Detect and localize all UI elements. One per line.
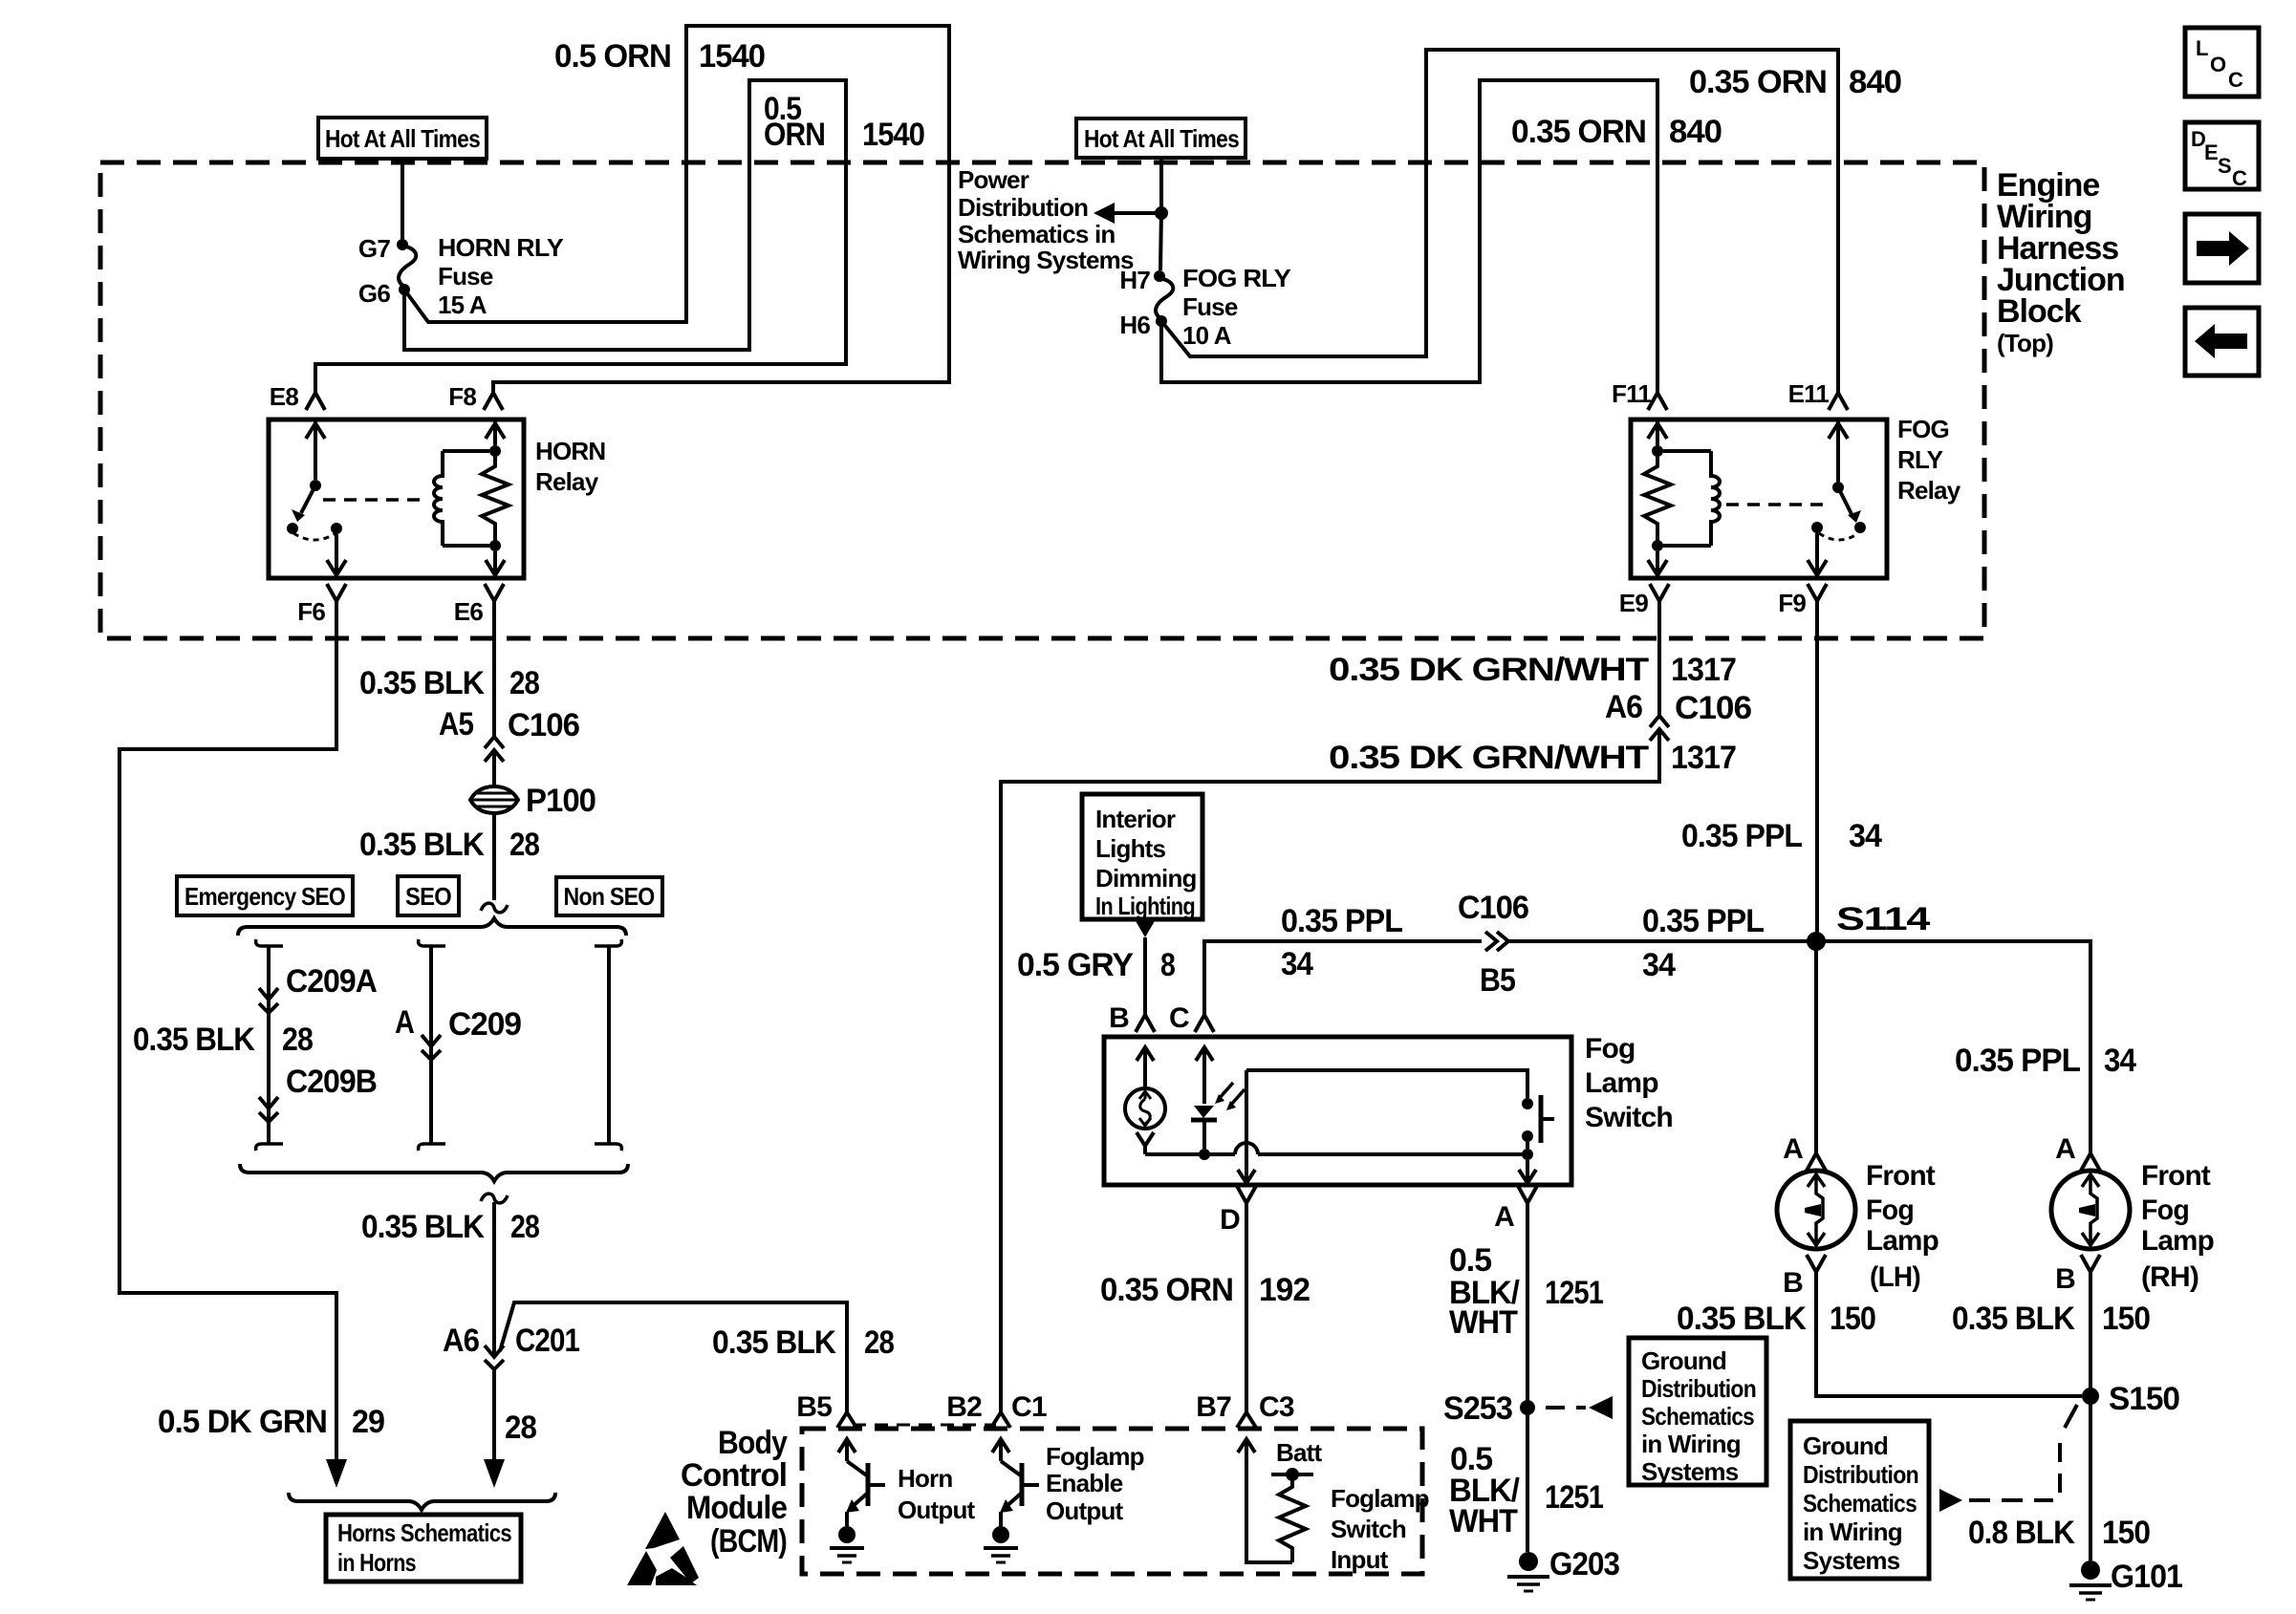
svg-text:0.5 ORN: 0.5 ORN (554, 38, 671, 75)
svg-text:B: B (1783, 1267, 1803, 1299)
svg-text:Lights: Lights (1095, 834, 1166, 863)
svg-text:Fog: Fog (1866, 1194, 1914, 1226)
svg-text:28: 28 (282, 1022, 313, 1058)
terminal B (RH fog lamp) (2055, 1255, 2100, 1295)
svg-text:1251: 1251 (1545, 1479, 1603, 1516)
wire LH lamp B to S150 (0.35 BLK 150) (1816, 1272, 2082, 1396)
boxed label Non SEO (556, 877, 662, 915)
svg-text:Input: Input (1331, 1545, 1389, 1574)
svg-text:WHT: WHT (1449, 1503, 1518, 1539)
svg-text:B: B (2055, 1263, 2075, 1295)
wire hot feed to horn fuse (401, 159, 404, 240)
relay HORN Relay box (269, 420, 524, 578)
node power distribution tap with arrow (1094, 203, 1168, 224)
svg-text:Wiring Systems: Wiring Systems (958, 246, 1134, 274)
svg-text:8: 8 (1160, 947, 1175, 983)
terminal C1 (BCM) (991, 1391, 1047, 1428)
wire connector to P100 (492, 753, 496, 786)
fuse HORN RLY 15A (399, 233, 563, 319)
svg-text:(BCM): (BCM) (710, 1523, 787, 1560)
BCM connector parting line (853, 1424, 996, 1427)
svg-text:Control: Control (681, 1457, 787, 1494)
svg-text:0.35 DK GRN/WHT: 0.35 DK GRN/WHT (1329, 652, 1649, 688)
svg-text:(Top): (Top) (1997, 329, 2053, 357)
svg-text:Lamp: Lamp (1866, 1225, 1939, 1257)
label 0.35 PPL 34 (left) (1281, 903, 1402, 982)
svg-text:Dimming: Dimming (1095, 864, 1197, 893)
svg-text:0.5: 0.5 (1449, 1242, 1491, 1279)
svg-text:Systems: Systems (1803, 1546, 1900, 1575)
svg-text:ORN: ORN (764, 117, 825, 153)
svg-text:34: 34 (1849, 818, 1882, 854)
svg-text:150: 150 (1830, 1301, 1875, 1337)
svg-text:C106: C106 (1675, 690, 1751, 726)
wire interior lights to switch B (1143, 937, 1147, 1015)
svg-text:0.35 ORN: 0.35 ORN (1100, 1272, 1233, 1308)
svg-text:C106: C106 (508, 707, 579, 743)
wire G6 to E8 (0.5 ORN 1540 inner loop) (315, 80, 846, 393)
wire brace to connector A6-C201 (492, 1202, 496, 1355)
wire H6 to E11 (0.35 ORN 840 outer loop) (1161, 50, 1838, 393)
svg-text:Relay: Relay (1897, 476, 1961, 505)
ground G203 (1507, 1546, 1619, 1591)
terminal A (LH fog lamp) (1783, 1133, 1826, 1171)
label 0.35 PPL 34 (RH) (1955, 1043, 2136, 1079)
svg-text:C: C (2232, 166, 2247, 190)
svg-text:28: 28 (509, 665, 539, 701)
resistor foglamp switch input (1238, 1438, 1322, 1562)
svg-text:WHT: WHT (1449, 1304, 1518, 1341)
svg-text:Interior: Interior (1095, 805, 1176, 833)
svg-text:Fog: Fog (2141, 1194, 2189, 1226)
svg-text:150: 150 (2102, 1515, 2150, 1551)
terminal C3 (BCM) (1237, 1391, 1294, 1428)
wire C106 to S114 to RH lamp A (1508, 941, 2090, 1153)
boxed label Ground Distribution Schematics in Wiring Systems (1) (1629, 1338, 1766, 1486)
connector C209B (259, 1064, 377, 1122)
svg-text:Hot At All Times: Hot At All Times (325, 124, 480, 153)
label 0.35 PPL 34 (right of C106) (1642, 903, 1764, 983)
svg-text:L: L (2196, 36, 2208, 60)
terminal B5 (BCM) (796, 1391, 856, 1428)
wire A to S253 to G203 (1526, 1203, 1529, 1552)
svg-text:E8: E8 (270, 382, 299, 411)
wire switch C to PPL run (1204, 941, 1482, 1015)
svg-text:C209A: C209A (286, 963, 377, 1000)
svg-text:192: 192 (1259, 1272, 1310, 1308)
lamp Front Fog Lamp RH (2051, 1171, 2130, 1249)
icon arrow right (2185, 214, 2259, 283)
svg-text:Ground: Ground (1641, 1346, 1726, 1375)
label 0.35 DK GRN/WHT 1317 (lower) (1329, 740, 1736, 776)
fog relay resistor (1644, 421, 1671, 575)
terminal F11 (1612, 379, 1667, 410)
terminal F9 (1778, 584, 1827, 617)
svg-text:RLY: RLY (1897, 445, 1943, 474)
wire P100 to SEO brace (492, 813, 496, 900)
svg-text:B2: B2 (946, 1391, 982, 1423)
svg-text:F9: F9 (1778, 589, 1806, 617)
label 0.35 BLK 28 (E6) (359, 665, 539, 701)
svg-text:1317: 1317 (1671, 740, 1736, 776)
svg-text:0.35 ORN: 0.35 ORN (1511, 114, 1646, 150)
svg-text:Ground: Ground (1803, 1431, 1888, 1460)
svg-text:(LH): (LH) (1870, 1261, 1920, 1293)
svg-text:15 A: 15 A (438, 291, 487, 319)
label 0.35 BLK 28 (below P100) (359, 827, 539, 863)
icon DESC (2185, 122, 2259, 190)
label 0.5 BLK/WHT 1251 (upper) (1449, 1242, 1603, 1341)
svg-text:Emergency SEO: Emergency SEO (184, 882, 345, 911)
svg-text:Switch: Switch (1331, 1515, 1406, 1543)
connector A6 C106 (fog) (1605, 689, 1751, 741)
brace SEO options (bottom) (240, 1164, 628, 1181)
svg-text:0.8 BLK: 0.8 BLK (1968, 1515, 2075, 1551)
terminal B (LH fog lamp) (1783, 1255, 1826, 1299)
svg-text:34: 34 (2104, 1043, 2136, 1079)
svg-text:28: 28 (505, 1410, 536, 1446)
label FOG RLY Relay (1897, 415, 1961, 505)
svg-text:Schematics: Schematics (1803, 1489, 1917, 1517)
svg-text:B: B (1109, 1002, 1129, 1034)
label 0.35 PPL 34 (F9 run) (1681, 818, 1882, 854)
svg-text:0.35 BLK: 0.35 BLK (359, 827, 485, 863)
relay FOG RLY Relay box (1631, 420, 1887, 578)
switch pushbutton (1246, 1070, 1554, 1149)
svg-text:0.5 GRY: 0.5 GRY (1017, 947, 1134, 983)
svg-text:SEO: SEO (405, 882, 452, 911)
svg-text:0.35 PPL: 0.35 PPL (1681, 818, 1802, 854)
horn relay switch (E8-F6) (287, 421, 346, 575)
label HORN Relay (535, 437, 605, 496)
svg-text:0.35 BLK: 0.35 BLK (133, 1022, 255, 1058)
svg-text:C: C (2228, 68, 2243, 92)
svg-text:1540: 1540 (699, 38, 765, 75)
svg-text:in Horns: in Horns (337, 1548, 416, 1577)
svg-text:Distribution: Distribution (1641, 1374, 1756, 1403)
connector A5 C106 (439, 706, 579, 762)
svg-text:E11: E11 (1788, 379, 1830, 408)
svg-text:1540: 1540 (862, 117, 924, 153)
node S150 (2082, 1381, 2179, 1417)
terminal E8 (270, 382, 325, 411)
svg-text:HORN RLY: HORN RLY (438, 233, 563, 262)
svg-text:FOG: FOG (1897, 415, 1949, 443)
svg-text:840: 840 (1849, 64, 1901, 100)
svg-text:B7: B7 (1196, 1391, 1231, 1423)
transistor Q2 foglamp enable output (992, 1439, 1039, 1526)
svg-text:0.35 BLK: 0.35 BLK (712, 1324, 836, 1361)
wire BCM B5 branch (0.35 BLK 28) (500, 1302, 847, 1412)
svg-text:G203: G203 (1549, 1546, 1619, 1582)
reference triangle to interior lights (1135, 919, 1156, 937)
svg-text:E6: E6 (454, 597, 484, 626)
ground (BCM horn output) (830, 1526, 864, 1562)
svg-text:Schematics: Schematics (1641, 1402, 1754, 1431)
label Engine Wiring Harness Junction Block (Top) (1997, 167, 2125, 357)
wire E9 to connector A6-C106 (1657, 601, 1661, 716)
label 0.35 BLK 28 (column) (133, 1022, 313, 1058)
connector column SEO with C209 (419, 939, 445, 1151)
label Power Distribution Schematics in Wiring Systems (958, 165, 1134, 274)
terminal D (fog lamp switch) (1220, 1186, 1256, 1236)
switch Fog Lamp Switch box (1104, 1037, 1571, 1185)
svg-text:FOG RLY: FOG RLY (1182, 264, 1290, 292)
wire D to BCM C3 (0.35 ORN 192) (1245, 1203, 1248, 1412)
switch output A (1519, 1160, 1536, 1183)
svg-text:Output: Output (898, 1496, 976, 1524)
svg-text:E: E (2204, 140, 2218, 164)
engine wiring harness junction block (dashed boundary) (100, 162, 1984, 638)
svg-text:S150: S150 (2109, 1381, 2179, 1417)
svg-text:F6: F6 (297, 597, 325, 626)
terminal A (RH fog lamp) (2055, 1133, 2100, 1171)
svg-text:0.35 ORN: 0.35 ORN (1689, 64, 1827, 100)
svg-text:28: 28 (509, 827, 539, 863)
switch illumination lamp (1125, 1047, 1165, 1154)
svg-text:G101: G101 (2111, 1559, 2182, 1595)
svg-text:O: O (2210, 53, 2226, 76)
svg-text:Fuse: Fuse (1182, 292, 1238, 321)
node H6 (1119, 311, 1167, 339)
svg-text:Enable: Enable (1046, 1469, 1123, 1497)
svg-text:C209: C209 (448, 1006, 521, 1043)
svg-text:Non SEO: Non SEO (564, 882, 656, 911)
svg-text:Fuse: Fuse (438, 262, 493, 291)
terminal C (fog lamp switch) (1169, 1002, 1214, 1034)
svg-text:Horn: Horn (898, 1464, 952, 1493)
fog relay dashed actuator link (1726, 503, 1830, 506)
fog relay switch (E11-F9) (1808, 421, 1866, 575)
wire C201 to horns brace (484, 1369, 505, 1488)
svg-text:A5: A5 (439, 706, 473, 742)
svg-text:0.35 BLK: 0.35 BLK (361, 1209, 485, 1245)
svg-text:Fog: Fog (1585, 1033, 1635, 1065)
svg-text:A: A (1783, 1133, 1803, 1165)
svg-text:Lamp: Lamp (1585, 1067, 1658, 1099)
fuse FOG RLY 10A (1156, 264, 1290, 350)
svg-text:Body: Body (718, 1425, 788, 1461)
label Foglamp Enable Output (1046, 1442, 1144, 1525)
label 0.35 DK GRN/WHT 1317 (upper) (1329, 652, 1736, 688)
boxed label Hot At All Times (right) (1076, 118, 1245, 158)
svg-text:Output: Output (1046, 1496, 1124, 1525)
lamp Front Fog Lamp LH (1777, 1171, 1855, 1249)
node S253 with reference arrow (1443, 1390, 1613, 1427)
svg-text:28: 28 (510, 1209, 539, 1245)
svg-text:Foglamp: Foglamp (1046, 1442, 1144, 1471)
svg-text:Systems: Systems (1641, 1457, 1739, 1486)
boxed label Horns Schematics in Horns (326, 1515, 521, 1582)
ground (BCM foglamp enable) (984, 1526, 1018, 1562)
node H7 (1119, 266, 1165, 294)
horn relay resistor (482, 421, 509, 575)
label 0.35 BLK 150 (RH) (1952, 1301, 2150, 1337)
terminal F8 (448, 382, 503, 411)
svg-text:C3: C3 (1259, 1391, 1294, 1423)
svg-text:in Wiring: in Wiring (1803, 1517, 1902, 1546)
svg-text:H6: H6 (1119, 311, 1150, 339)
svg-text:29: 29 (352, 1404, 384, 1440)
svg-text:Batt: Batt (1276, 1438, 1322, 1467)
boxed label Interior Lights Dimming In Lighting (1082, 794, 1202, 920)
svg-text:C209B: C209B (286, 1064, 377, 1100)
terminal E11 (1788, 379, 1848, 410)
svg-text:34: 34 (1642, 947, 1676, 983)
svg-text:Distribution: Distribution (958, 193, 1088, 222)
svg-text:A6: A6 (1605, 689, 1642, 725)
switch LED indicator (1191, 1047, 1245, 1160)
boxed label SEO (398, 876, 459, 915)
svg-text:A: A (2055, 1133, 2075, 1165)
reference arrow to S150 (1939, 1405, 2077, 1512)
svg-text:Block: Block (1997, 293, 2082, 330)
svg-text:0.35 BLK: 0.35 BLK (1952, 1301, 2075, 1337)
label 0.35 BLK 150 (LH) (1677, 1301, 1875, 1337)
label 0.35 ORN 192 (1100, 1272, 1310, 1308)
svg-text:G6: G6 (358, 279, 390, 308)
svg-text:0.35 PPL: 0.35 PPL (1642, 903, 1764, 939)
wire RH lamp B through S150 to G101 (2089, 1272, 2092, 1560)
wire A6-C106 to BCM C1 (1001, 732, 1659, 1412)
connector A6 C201 (443, 1323, 579, 1369)
svg-text:0.35 PPL: 0.35 PPL (1955, 1043, 2080, 1079)
svg-text:Switch: Switch (1585, 1102, 1673, 1133)
wire hot feed to fog fuse (1160, 158, 1161, 270)
horn relay coil (434, 451, 489, 546)
label 0.35 BLK 28 (above C201) (361, 1209, 539, 1245)
label 0.5 GRY 8 (1017, 947, 1175, 983)
break symbol above SEO brace (481, 903, 508, 913)
icon LOC (2185, 28, 2259, 97)
icon arrow left (2185, 308, 2259, 376)
svg-text:H7: H7 (1119, 266, 1150, 294)
svg-text:(RH): (RH) (2141, 1261, 2199, 1293)
wire E6 to connector A5-C106 (492, 601, 496, 737)
connector C106 in PPL run (1458, 890, 1528, 999)
label 0.35 BLK 28 (B5 branch) (712, 1324, 894, 1361)
svg-text:Power: Power (958, 165, 1029, 194)
label Front Fog Lamp (RH) (2141, 1160, 2214, 1293)
brace SEO options (top) (238, 918, 626, 936)
svg-text:Hot At All Times: Hot At All Times (1084, 124, 1239, 153)
svg-text:10 A: 10 A (1182, 321, 1232, 350)
boxed label Emergency SEO (177, 876, 353, 915)
svg-text:Horns Schematics: Horns Schematics (337, 1518, 511, 1547)
svg-text:Distribution: Distribution (1803, 1460, 1918, 1489)
svg-text:in Wiring: in Wiring (1641, 1430, 1741, 1458)
wire F6 to horns schematic (0.5 DK GRN 29) (119, 601, 347, 1488)
node G7 (358, 234, 408, 263)
label 0.35 ORN 840 (inner loop) (1511, 114, 1722, 150)
terminal F6 (297, 584, 346, 626)
label Foglamp Switch Input (1331, 1484, 1429, 1574)
svg-text:34: 34 (1281, 946, 1313, 982)
svg-text:0.5 DK GRN: 0.5 DK GRN (158, 1404, 327, 1440)
svg-text:1251: 1251 (1545, 1275, 1603, 1311)
svg-text:Module: Module (686, 1490, 787, 1526)
svg-text:P100: P100 (526, 783, 596, 819)
svg-text:0.35 DK GRN/WHT: 0.35 DK GRN/WHT (1329, 740, 1649, 776)
svg-text:C106: C106 (1458, 890, 1528, 926)
svg-text:Front: Front (1866, 1160, 1936, 1192)
svg-text:S: S (2218, 154, 2231, 178)
svg-text:840: 840 (1669, 114, 1722, 150)
svg-text:B5: B5 (796, 1391, 832, 1423)
connector column Non SEO (595, 939, 621, 1151)
svg-text:In Lighting: In Lighting (1095, 892, 1195, 920)
transistor Q1 horn output (838, 1439, 885, 1526)
boxed label Ground Distribution Schematics in Wiring Systems (2) (1790, 1421, 1929, 1579)
svg-text:Front: Front (2141, 1160, 2211, 1192)
switch internal bus with hop (1145, 1143, 1533, 1160)
horn relay dashed actuator link (323, 498, 426, 502)
terminal B2 (BCM) (946, 1391, 982, 1423)
svg-text:0.35 PPL: 0.35 PPL (1281, 903, 1402, 939)
svg-text:C1: C1 (1011, 1391, 1047, 1423)
svg-text:A6: A6 (443, 1323, 479, 1359)
svg-text:HORN: HORN (535, 437, 605, 465)
svg-text:A: A (395, 1004, 414, 1041)
svg-text:F8: F8 (448, 382, 476, 411)
wire H6 to F11 (0.35 ORN 840 inner loop) (1161, 80, 1657, 393)
terminal B (fog lamp switch) (1109, 1002, 1155, 1034)
terminal E6 (454, 584, 504, 626)
svg-text:28: 28 (864, 1324, 894, 1361)
svg-text:D: D (1220, 1204, 1240, 1236)
terminal B7 (BCM) (1196, 1391, 1231, 1423)
node S114 (1807, 901, 1930, 951)
module BCM dashed box (802, 1429, 1422, 1574)
svg-text:C201: C201 (515, 1323, 579, 1359)
svg-text:Foglamp: Foglamp (1331, 1484, 1429, 1513)
svg-text:150: 150 (2102, 1301, 2150, 1337)
ground G101 (2069, 1559, 2182, 1600)
esd caution symbol (627, 1512, 699, 1585)
svg-text:0.35 BLK: 0.35 BLK (359, 665, 485, 701)
svg-text:Lamp: Lamp (2141, 1225, 2214, 1257)
wire G6 to F8 (0.5 ORN 1540 outer loop) (404, 26, 949, 393)
label 0.5 DK GRN 29 (158, 1404, 384, 1440)
svg-text:F11: F11 (1612, 379, 1651, 408)
switch output D (1238, 1070, 1255, 1183)
boxed label Hot At All Times (left) (318, 118, 487, 159)
break symbol below SEO brace (481, 1194, 508, 1203)
fog relay coil (1663, 451, 1720, 546)
connector P100 (grommet) (470, 783, 596, 819)
label 0.5 BLK/WHT 1251 (lower) (1449, 1441, 1603, 1539)
label 0.8 BLK 150 (1968, 1515, 2150, 1551)
connector column Emergency SEO (256, 939, 283, 1151)
label Horn Output (898, 1464, 976, 1524)
connector C209A (259, 963, 377, 1013)
svg-text:A: A (1494, 1201, 1514, 1233)
svg-text:B5: B5 (1480, 962, 1515, 999)
node G6 (358, 279, 410, 308)
svg-text:C: C (1169, 1002, 1189, 1034)
terminal E9 (1619, 584, 1669, 617)
svg-text:1317: 1317 (1671, 652, 1736, 688)
svg-text:S253: S253 (1443, 1390, 1512, 1427)
brace to horns schematics (289, 1493, 555, 1510)
label 0.5 ORN 1540 (inner loop) (764, 91, 924, 153)
svg-text:G7: G7 (358, 234, 390, 263)
svg-text:Schematics in: Schematics in (958, 220, 1115, 248)
label 0.35 ORN 840 (outer loop) (1689, 64, 1901, 100)
svg-text:0.35 BLK: 0.35 BLK (1677, 1301, 1807, 1337)
svg-text:E9: E9 (1619, 589, 1649, 617)
svg-text:S114: S114 (1836, 901, 1930, 937)
